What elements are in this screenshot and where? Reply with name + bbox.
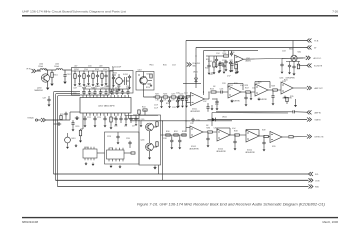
svg-text:C207: C207 <box>73 88 77 90</box>
svg-text:LM2904PWR1: LM2904PWR1 <box>190 111 200 113</box>
svg-text:C223: C223 <box>97 117 101 119</box>
svg-text:R217: R217 <box>155 94 159 96</box>
svg-text:LM2904PWR1: LM2904PWR1 <box>216 151 226 153</box>
svg-text:C228: C228 <box>107 136 111 138</box>
svg-text:R216: R216 <box>146 87 150 89</box>
svg-text:R209: R209 <box>95 69 99 71</box>
svg-text:U205-4: U205-4 <box>247 150 252 152</box>
svg-text:U205: U205 <box>272 146 276 148</box>
svg-text:U205-2: U205-2 <box>191 146 196 148</box>
svg-text:C227: C227 <box>43 98 47 100</box>
svg-text:CR201: CR201 <box>193 72 198 74</box>
svg-text:4.7uF: 4.7uF <box>227 76 231 78</box>
svg-text:C231: C231 <box>172 107 176 109</box>
svg-text:C241: C241 <box>184 93 188 95</box>
svg-text:R234: R234 <box>215 104 219 106</box>
svg-text:C210: C210 <box>88 65 92 67</box>
svg-text:1uH: 1uH <box>132 126 135 128</box>
svg-text:MMBR941: MMBR941 <box>35 90 44 92</box>
svg-text:C213: C213 <box>172 65 176 67</box>
svg-text:Q202: Q202 <box>138 70 142 72</box>
svg-text:C221: C221 <box>120 90 124 92</box>
svg-text:UHF 136-174 MHz Circuit Board/: UHF 136-174 MHz Circuit Board/Schematic … <box>22 9 126 13</box>
svg-text:R236: R236 <box>207 128 211 130</box>
svg-text:RX AUD: RX AUD <box>28 117 35 120</box>
svg-text:C205: C205 <box>73 93 77 95</box>
svg-text:LM2904PWR1: LM2904PWR1 <box>189 149 199 151</box>
svg-text:TX B: TX B <box>314 41 319 43</box>
svg-text:C225: C225 <box>114 126 118 128</box>
svg-text:U205: U205 <box>229 85 233 87</box>
svg-text:FL201: FL201 <box>123 74 128 76</box>
svg-text:C204: C204 <box>84 69 88 71</box>
svg-text:RXD: RXD <box>315 187 320 189</box>
svg-text:L207: L207 <box>74 65 78 67</box>
svg-text:R210: R210 <box>100 92 104 94</box>
svg-text:C220: C220 <box>179 94 183 96</box>
svg-text:M202: M202 <box>289 49 293 51</box>
svg-text:Q206: Q206 <box>141 140 145 142</box>
svg-text:10K: 10K <box>213 86 216 88</box>
svg-text:AMP IN: AMP IN <box>315 111 322 114</box>
svg-text:C247: C247 <box>203 101 207 103</box>
svg-text:C230: C230 <box>126 138 130 140</box>
svg-text:FL201 455F: FL201 455F <box>112 67 121 69</box>
svg-text:SCL: SCL <box>315 174 319 176</box>
svg-text:C217: C217 <box>230 60 234 62</box>
svg-text:R213: R213 <box>117 86 121 88</box>
svg-text:CS B: CS B <box>315 180 320 182</box>
svg-text:M201: M201 <box>72 138 76 140</box>
svg-text:LM4890: LM4890 <box>245 61 251 63</box>
svg-text:R224: R224 <box>166 103 170 105</box>
svg-text:R227: R227 <box>245 88 249 90</box>
svg-text:C243: C243 <box>282 51 286 53</box>
svg-text:C214: C214 <box>126 86 130 88</box>
svg-text:7-26: 7-26 <box>332 9 338 13</box>
svg-text:U202 TA31136FN: U202 TA31136FN <box>98 105 115 108</box>
svg-text:LM2904PWR1: LM2904PWR1 <box>245 152 255 154</box>
svg-text:March, 2006: March, 2006 <box>322 220 338 224</box>
svg-text:C218: C218 <box>209 74 213 76</box>
svg-text:C206: C206 <box>91 93 95 95</box>
svg-text:AMP OUT: AMP OUT <box>315 87 324 90</box>
svg-text:C224: C224 <box>220 89 224 91</box>
svg-text:0.1uF: 0.1uF <box>240 85 244 87</box>
svg-text:R218: R218 <box>163 94 167 96</box>
svg-text:R228: R228 <box>245 85 249 87</box>
svg-text:C240: C240 <box>176 93 180 95</box>
svg-text:C202: C202 <box>67 74 71 76</box>
svg-text:R207: R207 <box>82 92 86 94</box>
svg-text:10K: 10K <box>206 125 209 127</box>
svg-text:R204: R204 <box>223 53 227 55</box>
svg-text:R238: R238 <box>234 131 238 133</box>
svg-text:R223: R223 <box>210 89 214 91</box>
svg-text:20K: 20K <box>223 51 226 53</box>
svg-text:C233: C233 <box>196 120 200 122</box>
svg-text:Y201: Y201 <box>113 73 117 75</box>
svg-text:U205-1: U205-1 <box>192 109 197 111</box>
svg-text:R222: R222 <box>142 107 146 109</box>
svg-text:0.1uF: 0.1uF <box>154 107 158 109</box>
svg-text:C219: C219 <box>171 94 175 96</box>
svg-text:R205: R205 <box>234 62 238 64</box>
svg-text:C232: C232 <box>190 123 194 125</box>
svg-text:R241: R241 <box>174 131 178 133</box>
svg-text:U205: U205 <box>280 78 284 80</box>
svg-text:R201: R201 <box>54 75 58 77</box>
svg-text:R244: R244 <box>298 52 302 54</box>
svg-text:Figure 7-16. UHF 136-174 MHz: Figure 7-16. UHF 136-174 MHz Receiver Ba… <box>137 202 325 206</box>
svg-text:L208: L208 <box>99 65 103 67</box>
svg-text:R235: R235 <box>290 96 294 98</box>
svg-text:C222: C222 <box>87 117 91 119</box>
svg-text:120nH: 120nH <box>38 66 44 68</box>
svg-text:R216: R216 <box>163 65 167 67</box>
svg-text:SQ NOTE: SQ NOTE <box>314 66 323 68</box>
svg-text:150nH: 150nH <box>54 66 60 68</box>
svg-text:C238: C238 <box>163 138 167 140</box>
svg-text:C216: C216 <box>222 60 226 62</box>
svg-text:R231: R231 <box>284 80 288 82</box>
svg-text:D201: D201 <box>147 74 151 76</box>
svg-text:R230: R230 <box>258 82 262 84</box>
svg-text:C226: C226 <box>222 83 226 85</box>
svg-text:C235: C235 <box>214 128 218 130</box>
svg-text:LM2904PWR1: LM2904PWR1 <box>286 78 296 80</box>
svg-text:C209: C209 <box>103 69 107 71</box>
svg-text:R239: R239 <box>262 130 266 132</box>
svg-text:C219: C219 <box>154 105 158 107</box>
svg-text:6881094C98: 6881094C98 <box>22 220 38 224</box>
svg-text:C211: C211 <box>84 86 88 88</box>
svg-text:R242: R242 <box>182 131 186 133</box>
svg-text:L201: L201 <box>124 126 127 128</box>
svg-text:TP201: TP201 <box>149 65 154 67</box>
svg-text:R206: R206 <box>205 68 209 70</box>
svg-text:AF VOL 1: AF VOL 1 <box>314 57 322 60</box>
svg-text:CR202: CR202 <box>222 116 227 118</box>
svg-text:R220: R220 <box>76 126 80 128</box>
svg-text:DETECT B: DETECT B <box>315 137 325 139</box>
svg-text:C214: C214 <box>216 53 220 55</box>
svg-text:R240: R240 <box>166 131 170 133</box>
svg-text:R202: R202 <box>208 61 212 63</box>
svg-text:STAT B: STAT B <box>315 119 322 122</box>
svg-text:IF IN: IF IN <box>27 69 32 71</box>
svg-text:R212: R212 <box>95 86 99 88</box>
svg-text:R229: R229 <box>272 86 276 88</box>
svg-text:C212: C212 <box>106 86 110 88</box>
svg-text:0.1uF: 0.1uF <box>232 128 236 130</box>
svg-text:U205-3: U205-3 <box>218 149 223 151</box>
